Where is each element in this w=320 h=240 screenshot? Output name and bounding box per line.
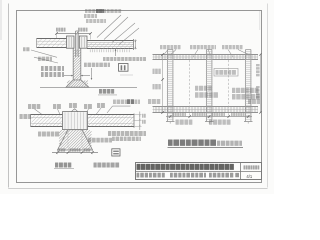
EL caption bold part xyxy=(168,140,173,146)
D1 left leader and label 6.6 xyxy=(23,47,26,51)
D1 section mark 1-1 box xyxy=(119,64,129,72)
D2 bottom dim line xyxy=(52,152,98,154)
EL top beam xyxy=(153,54,259,56)
EL center dashed line 2 xyxy=(228,60,230,117)
D1 text 50mm layer xyxy=(38,57,41,61)
outer border bottom xyxy=(8,188,267,190)
D1 annotation text row 3 xyxy=(86,19,89,23)
D2 center peak marks xyxy=(71,109,75,112)
D2 annotation text 4 xyxy=(84,104,87,109)
D1 slab right thickness dim xyxy=(134,40,136,50)
title row1 bold text xyxy=(137,164,141,170)
D1 slab right band xyxy=(87,40,134,42)
EL column 2 foot xyxy=(205,121,214,123)
D2 annotation text 5 xyxy=(97,103,100,108)
EL left dim text2 xyxy=(153,84,155,89)
D1 joint sealant strip xyxy=(76,33,79,56)
EL top annotation text 3 xyxy=(222,45,224,49)
frame artifact line xyxy=(259,11,261,31)
inner drawing frame xyxy=(17,11,262,183)
EL column 3 xyxy=(245,50,247,122)
EL caption underline xyxy=(168,147,244,149)
D1 annotation text row 2 xyxy=(84,14,87,18)
D1 annotation text row 1 xyxy=(85,9,88,13)
EL bottom-right label xyxy=(248,99,251,104)
EL top annotation text 1 xyxy=(160,45,162,49)
EL column 1 xyxy=(167,50,169,122)
D2 below-slab left text xyxy=(38,132,41,137)
edge smudge left xyxy=(0,0,2,40)
D1 ground hatch ticks below right slab xyxy=(89,49,91,52)
title block row divider xyxy=(136,171,262,173)
D2 central block xyxy=(63,112,88,130)
D1 leader arrow down xyxy=(91,68,93,80)
D1 post width dim 120 xyxy=(64,75,73,77)
D2 below-slab right text row2 xyxy=(112,137,115,141)
D1 curb block right xyxy=(79,36,87,48)
D2 annotation text 1 xyxy=(28,104,31,109)
EL boxed label xyxy=(214,69,238,77)
EL top annotation text 2 xyxy=(190,45,192,49)
D2 caption b right xyxy=(94,163,97,168)
D2 dim texts xyxy=(59,148,61,152)
EL bottom beam xyxy=(153,106,259,108)
D2 footing leader text xyxy=(88,138,91,143)
D2 footing trapezoid xyxy=(58,130,93,150)
EL center dashed line 1 xyxy=(189,60,191,117)
EL column 1 foot xyxy=(166,121,175,123)
EL bottom dim texts xyxy=(173,113,175,116)
D1 leader fan lines xyxy=(97,15,121,38)
EL right dim line xyxy=(259,55,261,113)
D1 text row below xyxy=(84,63,87,67)
EL left dim line xyxy=(162,55,164,113)
D2 annotation leaders xyxy=(35,109,43,115)
EL interior text right row1 xyxy=(232,88,235,93)
D2 annotation text 2 xyxy=(53,104,56,109)
EL column 3 foot xyxy=(244,121,253,123)
D2 annotation text 3 xyxy=(69,103,72,108)
outer border left xyxy=(8,4,10,188)
EL left dim text1 xyxy=(153,69,155,74)
EL bottom-left label xyxy=(148,99,151,104)
EL caption light part xyxy=(217,141,220,146)
title page label xyxy=(235,173,239,177)
title row2 text xyxy=(137,173,140,178)
D1 curb block left xyxy=(67,36,75,48)
EL bottom dim line xyxy=(166,116,252,118)
title atlas number xyxy=(244,165,246,169)
D2 section mark 2-2 xyxy=(112,149,120,156)
EL interior text mid row1 xyxy=(195,86,198,91)
D2 caption b left xyxy=(55,163,58,168)
EL annotation leaders xyxy=(164,50,168,55)
EL interior text right row2 xyxy=(232,94,236,100)
title block column divider xyxy=(240,163,242,180)
D1 footing flare xyxy=(66,80,89,87)
D2 slab band xyxy=(31,114,135,116)
D2 right end dims xyxy=(139,112,141,131)
D2 below-slab right text row1 xyxy=(108,131,111,136)
D1 text fill row 2 xyxy=(41,72,44,77)
title block box xyxy=(136,163,262,180)
D1 post below joint xyxy=(72,48,74,80)
D2 left label xyxy=(20,114,23,119)
EL right dim text1 vertical xyxy=(256,64,260,66)
D1 caption a xyxy=(99,89,102,94)
EL below dim text left xyxy=(176,120,179,125)
outer border right xyxy=(267,4,269,188)
EL below dim text right xyxy=(209,120,212,125)
D1 top dimension line xyxy=(56,33,91,35)
D1 up arrow at slab end xyxy=(115,49,117,56)
D1 slab left band xyxy=(37,38,67,40)
EL interior text mid row2 xyxy=(195,92,199,98)
EL right dim text2 vertical xyxy=(256,86,260,88)
D1 ground line xyxy=(40,87,137,89)
D1 text fill row 1 xyxy=(41,66,44,71)
svg-text:4/1: 4/1 xyxy=(246,174,252,179)
EL column 2 xyxy=(206,50,208,122)
D2 boxed note top right xyxy=(113,100,116,105)
D1 top dimension texts xyxy=(56,28,58,32)
D1 waterproof layer text xyxy=(103,57,106,61)
